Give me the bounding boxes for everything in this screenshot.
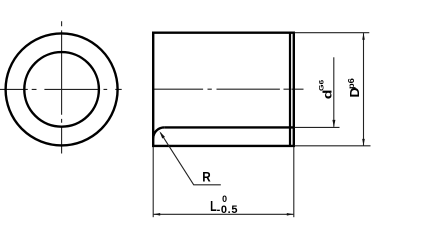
d dimension arrow (down) <box>332 120 335 127</box>
L arrow left <box>153 213 160 216</box>
L arrow right <box>287 213 294 216</box>
bore extension line (to d dimension) <box>295 126 340 128</box>
svg-text:0: 0 <box>222 194 227 204</box>
inner circle d (front view) <box>24 52 99 127</box>
extension line bottom (for D) <box>295 145 371 147</box>
centerline horizontal (front view) <box>0 88 122 90</box>
svg-text:R: R <box>202 169 211 185</box>
body outline (side view) <box>153 33 294 146</box>
L extension line right <box>293 147 295 217</box>
bore line (bottom of hole) <box>164 126 294 128</box>
svg-text:-0.5: -0.5 <box>217 204 239 216</box>
extension line top (for D) <box>295 32 370 34</box>
D dimension line <box>363 33 365 145</box>
fillet radius R arc <box>153 127 164 138</box>
inner edge line at right end <box>289 33 291 146</box>
R leader line <box>161 133 221 185</box>
L dimension line <box>154 213 294 215</box>
D dimension arrow (down) <box>362 139 365 146</box>
d dimension line <box>333 57 335 127</box>
centerline horizontal (side view) <box>154 88 304 90</box>
D dimension arrow (up) <box>362 33 365 40</box>
centerline vertical (front view) <box>61 21 63 153</box>
R leader arrow <box>159 131 165 138</box>
outer circle D (front view) <box>6 33 118 145</box>
L extension line left <box>152 147 154 217</box>
